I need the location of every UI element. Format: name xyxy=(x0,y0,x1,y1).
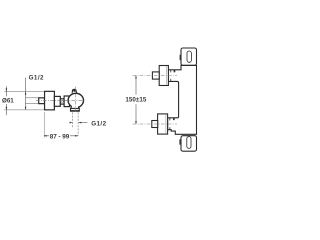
valve neck section xyxy=(60,99,64,104)
dimension Ø61 line xyxy=(5,86,7,115)
bottom knob inner edge line xyxy=(165,115,167,134)
dimension 87-99 line xyxy=(44,135,78,137)
vertical centerline through knob xyxy=(74,87,76,113)
temperature stop button on knob xyxy=(72,89,76,92)
top handle cap xyxy=(152,72,159,79)
handle knob circle (side view) xyxy=(68,93,83,107)
left view: extension line escutcheon bottom xyxy=(4,109,45,111)
svg-text:G1/2: G1/2 xyxy=(29,75,44,82)
shower outlet neck xyxy=(71,106,79,108)
bottom wall escutcheon xyxy=(181,136,197,152)
button dot xyxy=(73,90,75,92)
dimension 87-99 arrowhead right xyxy=(75,135,78,137)
dimension 150±15 arrow down xyxy=(135,121,137,124)
outlet G1/2 arrowhead right xyxy=(78,122,81,124)
svg-text:Ø61: Ø61 xyxy=(2,98,14,105)
horizontal centerline left view xyxy=(36,99,84,101)
right view: top wall escutcheon xyxy=(181,48,197,65)
dimension Ø61 arrow bottom xyxy=(6,107,8,110)
outlet flare lip line xyxy=(71,109,80,111)
bottom handle cap xyxy=(152,121,158,128)
dimension 150±15 arrow up xyxy=(135,76,137,79)
bottom handle knob xyxy=(158,114,168,134)
dimension 87-99 arrowhead left xyxy=(44,135,47,137)
valve body section xyxy=(54,96,60,106)
top handle knob xyxy=(159,66,168,86)
bottom handle centerline xyxy=(133,123,178,125)
left view: extension line inlet pipe top xyxy=(26,97,40,99)
dimension G1/2 wall leader line xyxy=(25,78,27,110)
svg-text:87 - 99: 87 - 99 xyxy=(50,134,70,141)
handle back plate xyxy=(64,96,69,107)
bottom neck flange rings xyxy=(169,118,171,130)
top escutcheon left nub xyxy=(180,55,182,60)
small screw detail xyxy=(61,100,63,102)
shower outlet neck opening (erases circle arc) xyxy=(72,102,78,108)
wall inlet pipe stub xyxy=(39,98,45,104)
dimension 150±15 line xyxy=(135,76,137,125)
bottom escutcheon oval slot xyxy=(187,137,191,149)
top knob inner edge line xyxy=(166,66,168,85)
outlet G1/2 arrow right leader xyxy=(79,122,87,124)
bottom neck notch tick xyxy=(173,118,175,120)
bottom escutcheon left nub xyxy=(179,139,181,144)
svg-text:150±15: 150±15 xyxy=(125,97,146,104)
top escutcheon oval slot xyxy=(187,51,191,62)
dimension 87-99 left extension xyxy=(43,112,45,138)
svg-text:G1/2: G1/2 xyxy=(91,120,106,127)
top handle centerline xyxy=(133,75,178,77)
wall escutcheon flange (side view) xyxy=(45,91,55,110)
shower outlet flare nut xyxy=(71,108,80,111)
outlet G1/2 extension line left xyxy=(72,112,74,127)
dimension G1/2 wall arrow up xyxy=(25,92,27,95)
dimension Ø61 arrow top xyxy=(6,88,8,91)
dimension G1/2 wall arrow down xyxy=(25,107,27,110)
valve body vertical bar with stepped handle necks xyxy=(168,65,197,134)
outlet G1/2 arrowhead left xyxy=(70,122,73,124)
left view: extension line inlet pipe bottom xyxy=(26,103,40,105)
left view: extension line escutcheon top xyxy=(4,90,45,92)
outlet G1/2 extension line right xyxy=(77,112,79,136)
top neck notch tick xyxy=(174,70,176,73)
top neck flange rings xyxy=(170,70,172,81)
